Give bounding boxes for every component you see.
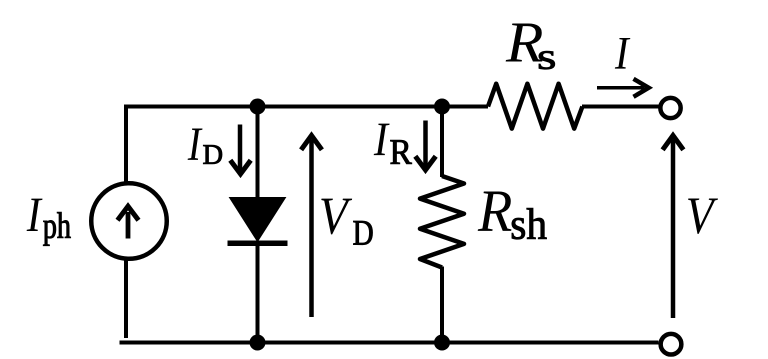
label I output [615,38,630,69]
current source arrow [118,206,139,238]
wire Rsh branch upper [440,107,444,178]
label ID [188,128,203,159]
arrow VD up [301,136,322,318]
node top diode junction [250,99,266,115]
label Rs [506,24,543,62]
label IR [374,124,390,155]
wire diode branch upper [256,107,260,200]
node top Rsh junction [434,99,450,115]
current source Iph circle [91,183,167,259]
arrow V up [663,136,684,319]
wire diode branch lower [256,241,260,343]
wire Rsh branch lower [440,267,444,343]
label VD [321,199,352,235]
wire top horizontal left segment [124,105,488,109]
arrow ID down [230,125,250,175]
resistor Rsh zigzag [420,176,464,268]
label Rsh [478,192,512,231]
wire bottom horizontal [120,341,659,345]
diode cathode bar [228,240,288,246]
arrow I right [597,79,649,97]
node bottom Rsh junction [434,335,450,351]
node bottom diode junction [250,335,266,351]
arrow IR down [415,121,435,171]
resistor Rs zigzag [488,84,582,129]
diode D triangle [230,198,286,242]
wire left branch upper [124,105,128,185]
terminal bottom open circle [661,334,682,355]
label V [688,198,718,233]
wire top horizontal right segment [582,105,659,109]
terminal top open circle [660,98,680,118]
wire left branch lower [124,258,128,338]
label Iph [27,199,43,231]
